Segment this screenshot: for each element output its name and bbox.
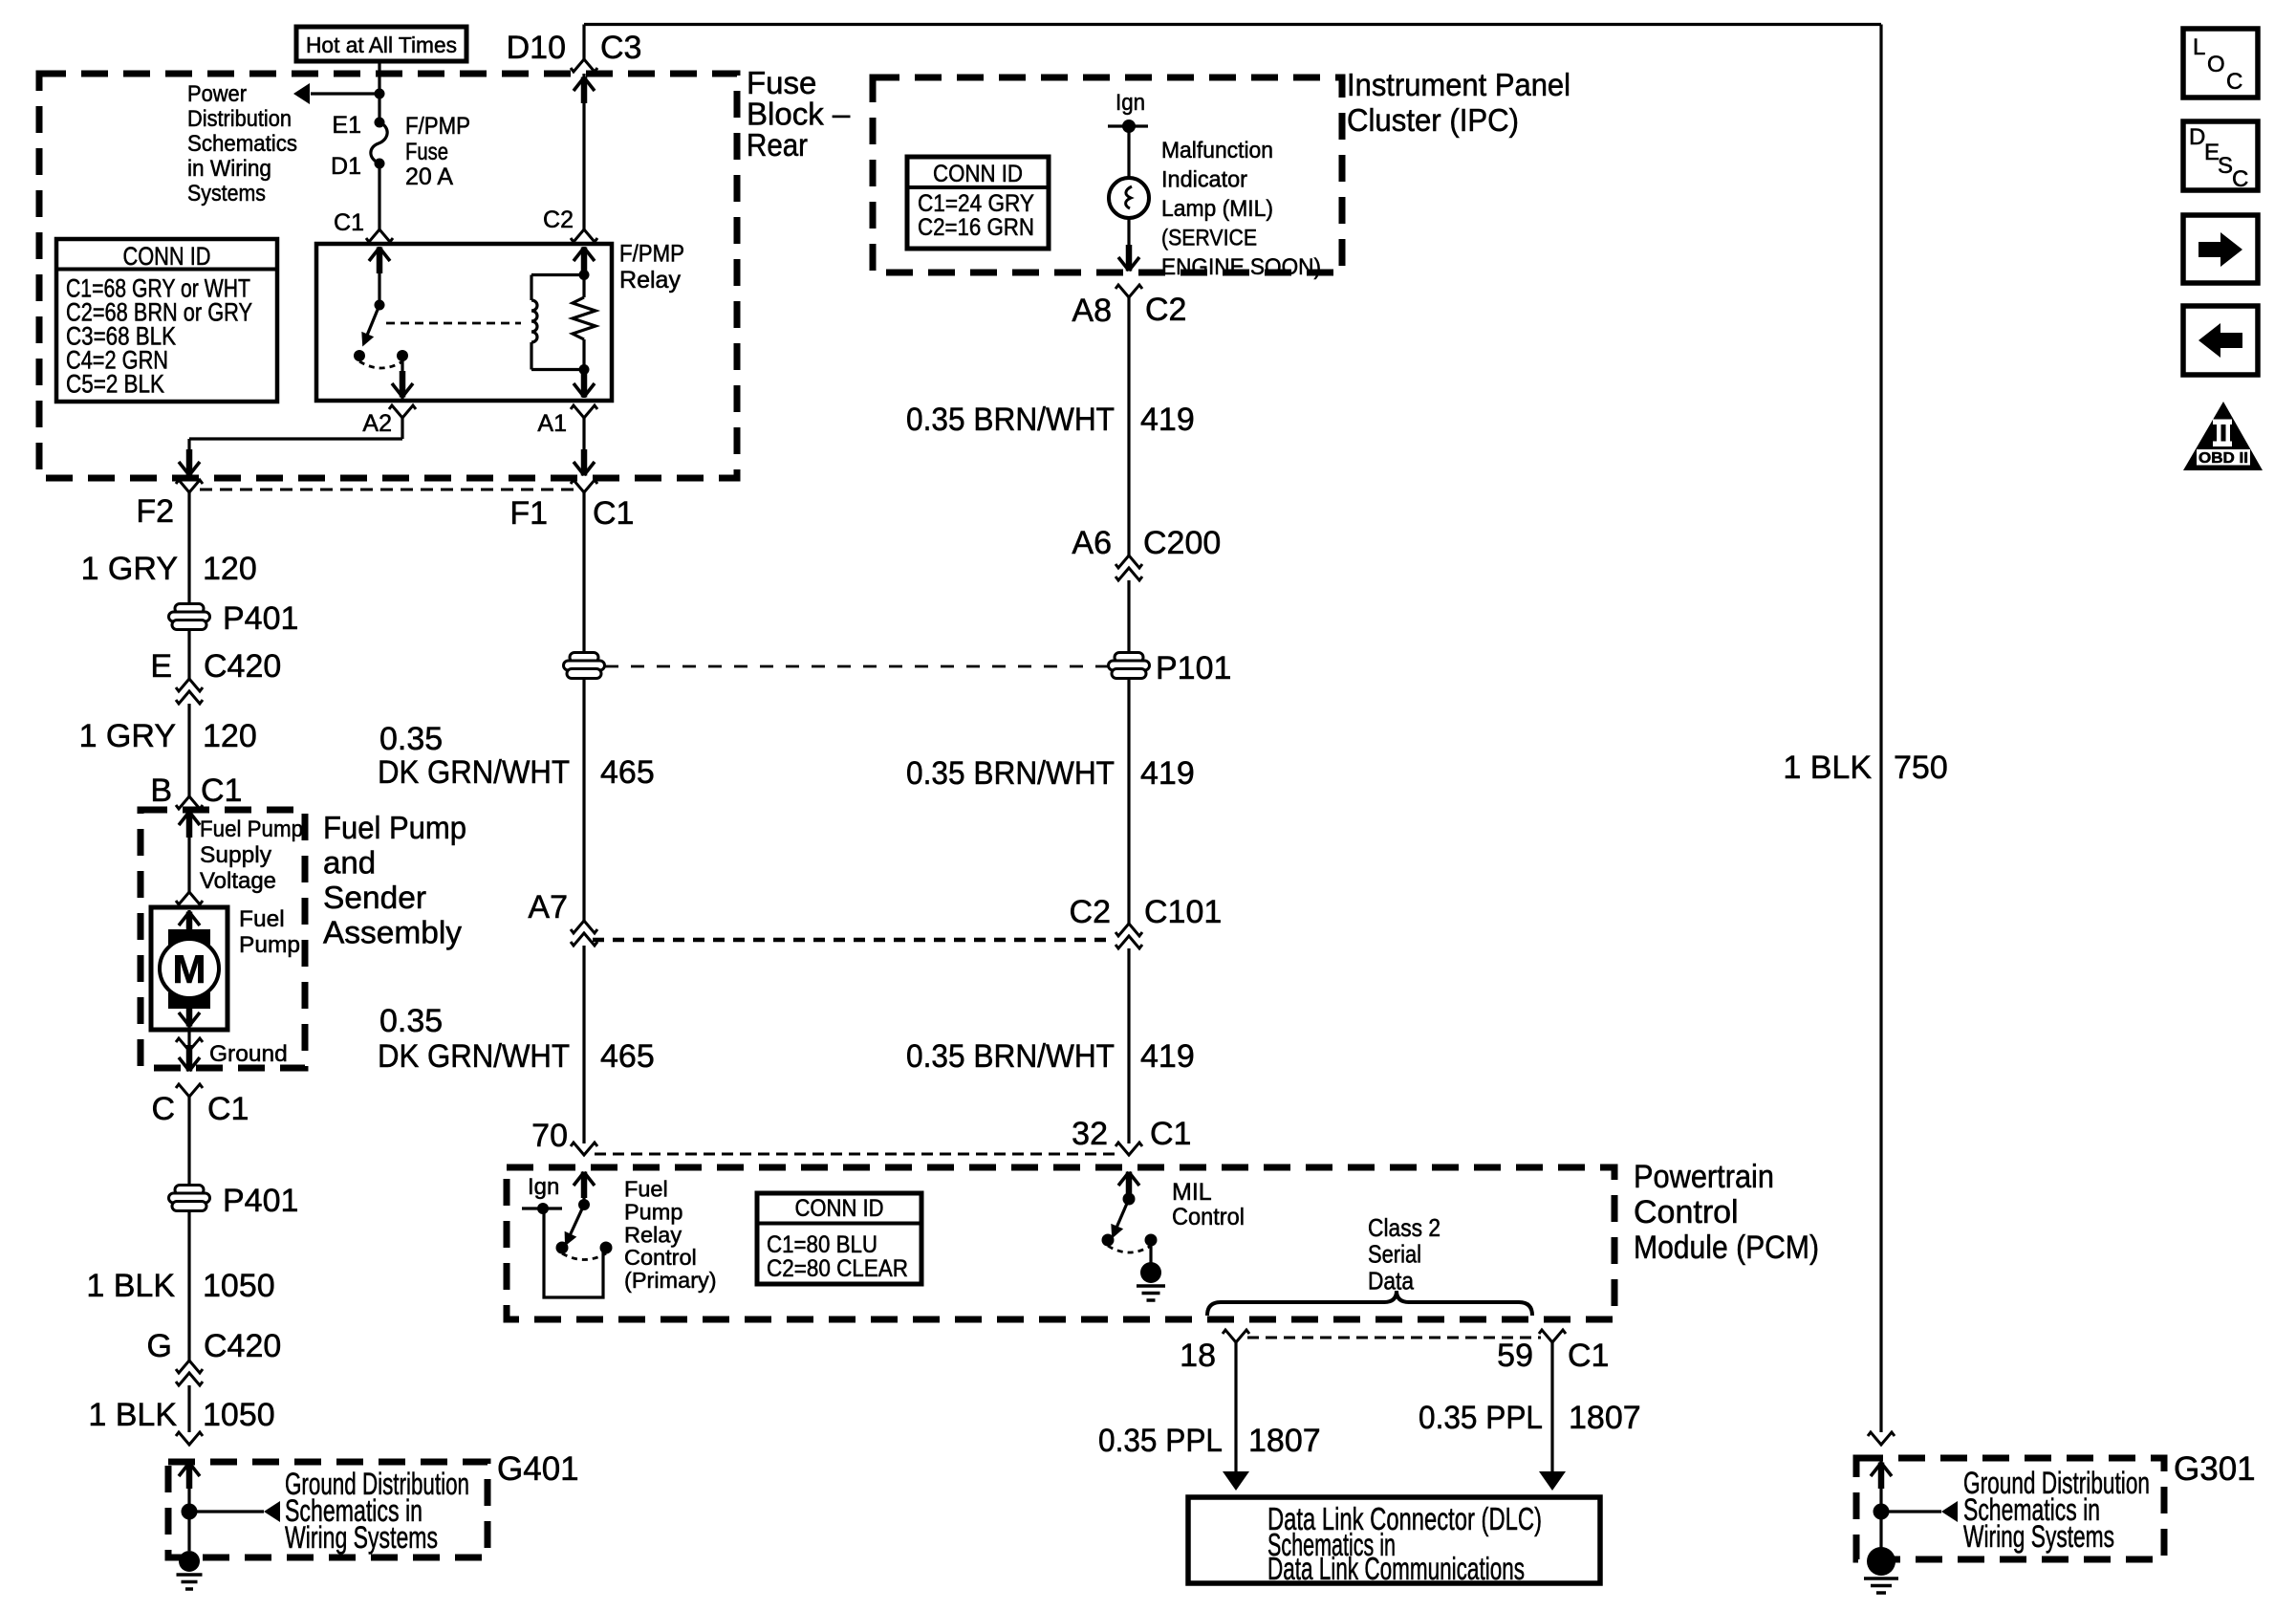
svg-text:A7: A7 <box>528 889 568 925</box>
svg-text:Relay: Relay <box>619 267 681 294</box>
svg-text:C420: C420 <box>204 1328 281 1364</box>
svg-text:419: 419 <box>1140 755 1195 792</box>
svg-text:Module (PCM): Module (PCM) <box>1634 1230 1819 1266</box>
svg-text:1 BLK: 1 BLK <box>1783 750 1872 786</box>
svg-text:A1: A1 <box>537 410 567 437</box>
svg-text:Assembly: Assembly <box>323 915 462 950</box>
svg-text:Sender: Sender <box>323 880 426 915</box>
svg-text:Hot at All Times: Hot at All Times <box>306 33 457 57</box>
svg-text:1 BLK: 1 BLK <box>88 1397 177 1433</box>
svg-text:C420: C420 <box>204 648 281 685</box>
svg-text:Ground: Ground <box>209 1041 288 1067</box>
svg-text:0.35 PPL: 0.35 PPL <box>1098 1423 1223 1459</box>
svg-text:Power: Power <box>187 81 247 107</box>
svg-text:1050: 1050 <box>203 1397 275 1433</box>
svg-text:CONN ID: CONN ID <box>123 242 211 271</box>
svg-text:CONN ID: CONN ID <box>933 161 1023 187</box>
svg-text:E1: E1 <box>332 112 361 139</box>
svg-text:C2=16 GRN: C2=16 GRN <box>918 214 1034 241</box>
svg-text:120: 120 <box>203 718 257 754</box>
svg-text:Fuse: Fuse <box>747 65 816 100</box>
svg-text:E: E <box>150 648 172 685</box>
svg-text:1807: 1807 <box>1569 1400 1641 1436</box>
svg-text:F1: F1 <box>509 495 548 532</box>
svg-text:B: B <box>150 773 172 809</box>
svg-text:59: 59 <box>1497 1338 1533 1374</box>
svg-text:1 BLK: 1 BLK <box>86 1268 175 1304</box>
svg-text:0.35: 0.35 <box>379 1003 443 1039</box>
svg-text:1050: 1050 <box>203 1268 275 1304</box>
svg-text:(SERVICE: (SERVICE <box>1161 226 1257 251</box>
svg-text:0.35: 0.35 <box>379 721 443 757</box>
svg-text:Control: Control <box>624 1245 697 1270</box>
svg-text:P401: P401 <box>223 1183 298 1219</box>
svg-text:D: D <box>2189 124 2205 150</box>
svg-text:0.35 BRN/WHT: 0.35 BRN/WHT <box>906 402 1115 438</box>
svg-text:Malfunction: Malfunction <box>1161 138 1273 163</box>
svg-text:A6: A6 <box>1072 525 1112 561</box>
svg-text:C2: C2 <box>1070 894 1111 930</box>
svg-text:Instrument Panel: Instrument Panel <box>1347 67 1570 102</box>
svg-text:Schematics: Schematics <box>187 131 297 157</box>
svg-text:1 GRY: 1 GRY <box>79 718 176 754</box>
svg-text:CONN ID: CONN ID <box>795 1195 884 1222</box>
svg-text:C1=24 GRY: C1=24 GRY <box>918 190 1034 217</box>
svg-text:Cluster (IPC): Cluster (IPC) <box>1347 102 1519 138</box>
svg-text:0.35 BRN/WHT: 0.35 BRN/WHT <box>906 755 1115 792</box>
svg-text:C: C <box>2232 166 2248 192</box>
svg-text:Fuse: Fuse <box>405 139 448 165</box>
svg-text:F2: F2 <box>136 493 174 530</box>
svg-text:C1: C1 <box>201 773 242 809</box>
svg-text:in Wiring: in Wiring <box>187 156 271 182</box>
svg-text:G: G <box>147 1328 172 1364</box>
svg-text:C1: C1 <box>1568 1338 1609 1374</box>
svg-text:Class 2: Class 2 <box>1368 1213 1440 1242</box>
svg-text:(Primary): (Primary) <box>624 1268 717 1293</box>
svg-text:Pump: Pump <box>624 1199 682 1224</box>
svg-text:L: L <box>2193 34 2205 60</box>
svg-text:F/PMP: F/PMP <box>405 113 470 140</box>
svg-text:Voltage: Voltage <box>200 868 276 894</box>
svg-text:Control: Control <box>1172 1204 1245 1230</box>
svg-text:0.35 BRN/WHT: 0.35 BRN/WHT <box>906 1038 1115 1075</box>
svg-text:P401: P401 <box>223 600 298 637</box>
svg-text:465: 465 <box>600 754 655 791</box>
svg-text:Rear: Rear <box>747 127 808 163</box>
svg-text:465: 465 <box>600 1038 655 1075</box>
svg-text:Ign: Ign <box>528 1174 559 1200</box>
svg-text:C1: C1 <box>1150 1116 1191 1152</box>
svg-text:MIL: MIL <box>1172 1179 1212 1206</box>
svg-text:D1: D1 <box>331 153 361 180</box>
svg-text:C1: C1 <box>207 1091 249 1127</box>
svg-text:1 GRY: 1 GRY <box>81 551 178 587</box>
svg-text:419: 419 <box>1140 402 1195 438</box>
svg-text:1807: 1807 <box>1248 1423 1321 1459</box>
svg-text:C200: C200 <box>1143 525 1221 561</box>
svg-text:Data: Data <box>1368 1267 1414 1295</box>
svg-text:OBD II: OBD II <box>2199 450 2248 467</box>
svg-text:Pump: Pump <box>239 932 300 958</box>
svg-text:Wiring Systems: Wiring Systems <box>285 1520 438 1555</box>
svg-text:Fuel Pump: Fuel Pump <box>323 810 466 845</box>
svg-text:20 A: 20 A <box>405 163 453 190</box>
svg-text:Ign: Ign <box>1116 90 1145 116</box>
svg-text:ENGINE SOON): ENGINE SOON) <box>1161 254 1321 280</box>
svg-text:18: 18 <box>1180 1338 1216 1374</box>
svg-text:C5=2 BLK: C5=2 BLK <box>66 370 164 399</box>
svg-text:C1: C1 <box>334 209 364 236</box>
svg-text:Block –: Block – <box>747 97 851 132</box>
svg-text:Fuel Pump: Fuel Pump <box>200 816 303 842</box>
svg-text:750: 750 <box>1894 750 1948 786</box>
svg-text:120: 120 <box>203 551 257 587</box>
svg-text:419: 419 <box>1140 1038 1195 1075</box>
svg-text:Powertrain: Powertrain <box>1634 1159 1774 1195</box>
svg-text:A2: A2 <box>362 410 392 437</box>
svg-text:Fuel: Fuel <box>239 906 285 932</box>
svg-text:Serial: Serial <box>1368 1240 1421 1269</box>
svg-text:Indicator: Indicator <box>1161 167 1247 193</box>
svg-text:G401: G401 <box>497 1450 579 1488</box>
svg-text:C2: C2 <box>543 207 574 233</box>
svg-text:C1: C1 <box>593 495 634 532</box>
svg-text:0.35 PPL: 0.35 PPL <box>1419 1400 1543 1436</box>
svg-text:Relay: Relay <box>624 1222 682 1247</box>
svg-text:70: 70 <box>531 1118 568 1154</box>
svg-text:Data Link Communications: Data Link Communications <box>1267 1551 1525 1586</box>
svg-text:O: O <box>2207 52 2225 77</box>
svg-text:Supply: Supply <box>200 842 272 868</box>
svg-text:G301: G301 <box>2174 1450 2256 1488</box>
svg-text:C1=80 BLU: C1=80 BLU <box>767 1231 877 1258</box>
svg-text:C2: C2 <box>1145 292 1186 328</box>
svg-text:S: S <box>2218 153 2233 179</box>
svg-text:C101: C101 <box>1144 894 1222 930</box>
svg-text:Control: Control <box>1634 1194 1739 1230</box>
svg-text:DK GRN/WHT: DK GRN/WHT <box>378 754 570 791</box>
svg-text:P101: P101 <box>1156 650 1231 686</box>
svg-text:D10: D10 <box>507 30 566 66</box>
svg-text:F/PMP: F/PMP <box>619 241 684 268</box>
svg-text:Wiring Systems: Wiring Systems <box>1963 1519 2114 1554</box>
svg-text:DK GRN/WHT: DK GRN/WHT <box>378 1038 570 1075</box>
svg-text:32: 32 <box>1072 1116 1108 1152</box>
svg-text:Systems: Systems <box>187 181 266 207</box>
svg-text:Distribution: Distribution <box>187 106 292 132</box>
svg-text:C: C <box>151 1091 175 1127</box>
svg-text:C2=80 CLEAR: C2=80 CLEAR <box>767 1255 908 1282</box>
svg-text:C: C <box>2226 69 2242 95</box>
svg-text:M: M <box>173 947 206 991</box>
svg-text:A8: A8 <box>1072 293 1112 329</box>
svg-text:C3: C3 <box>600 30 641 66</box>
svg-text:Fuel: Fuel <box>624 1177 668 1202</box>
svg-text:Lamp (MIL): Lamp (MIL) <box>1161 196 1273 222</box>
svg-text:and: and <box>323 845 376 881</box>
